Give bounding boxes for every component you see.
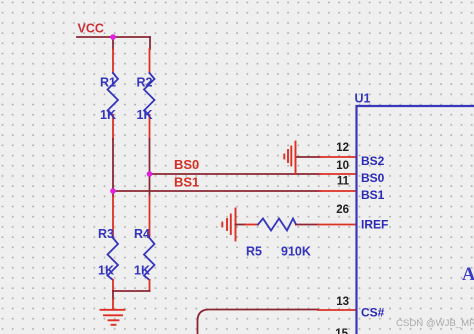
svg-text:910K: 910K [281, 245, 311, 259]
junction BS0 [147, 171, 153, 177]
wire ground to BS0 net [295, 171, 297, 174]
resistor R3 pin bottom [112, 280, 114, 291]
wire net BS1 [113, 190, 320, 192]
resistor R5 body [258, 219, 296, 231]
resistor R2 body [144, 73, 155, 115]
svg-text:A: A [462, 265, 474, 285]
resistor R1 pin bottom [112, 115, 114, 139]
svg-text:IREF: IREF [361, 218, 388, 232]
svg-text:R5: R5 [246, 245, 262, 259]
power rail VCC wire [77, 36, 150, 38]
svg-text:BS1: BS1 [174, 175, 199, 190]
pin 12 BS2 [320, 156, 356, 158]
pin 11 BS1 [320, 190, 356, 192]
resistor R4 pin bottom [149, 280, 151, 291]
wire R5 to pin [296, 224, 318, 226]
svg-text:R2: R2 [137, 76, 153, 90]
svg-text:CSDN @WJB_MR: CSDN @WJB_MR [396, 318, 474, 329]
svg-text:12: 12 [336, 142, 349, 154]
junction VCC rail [110, 34, 116, 40]
svg-text:1K: 1K [134, 264, 150, 278]
svg-text:R1: R1 [100, 76, 116, 90]
op IC U1 outline [357, 106, 474, 334]
svg-text:15: 15 [335, 328, 348, 334]
svg-text:BS0: BS0 [174, 157, 199, 172]
ground symbol at IREF [222, 209, 235, 241]
svg-text:1K: 1K [137, 108, 153, 122]
resistor R5 pin left [245, 224, 258, 226]
resistor R4 body [144, 238, 155, 280]
resistor R1 body [108, 73, 119, 115]
svg-text:11: 11 [337, 176, 350, 188]
wire column 2 middle [149, 139, 151, 196]
wire net BS0 [150, 173, 321, 175]
junction BS1 [110, 188, 116, 194]
svg-text:13: 13 [336, 296, 349, 308]
pin 13 CS# [318, 309, 356, 311]
svg-text:BS1: BS1 [361, 188, 385, 202]
resistor R3 pin top [112, 196, 114, 238]
resistor R2 pin top [149, 49, 151, 73]
ground symbol bottom [101, 310, 125, 325]
svg-text:CS#: CS# [361, 306, 385, 320]
wire vertical column 1 upper [112, 37, 114, 49]
wire bottom joining R3 R4 [113, 290, 150, 292]
svg-text:R3: R3 [98, 227, 114, 241]
svg-text:10: 10 [336, 160, 349, 172]
resistor R1 pin top [112, 49, 114, 73]
resistor R2 pin bottom [149, 115, 151, 139]
svg-text:U1: U1 [355, 92, 371, 106]
pin 26 IREF [318, 224, 356, 226]
svg-text:26: 26 [336, 204, 349, 216]
ground symbol at BS2 [284, 142, 295, 172]
wire pin12 to ground [296, 156, 321, 158]
svg-text:BS2: BS2 [361, 154, 385, 168]
ground stem bottom [112, 291, 114, 299]
svg-text:BS0: BS0 [361, 171, 385, 185]
svg-text:1K: 1K [100, 108, 116, 122]
wire ground to R5 [236, 224, 246, 226]
svg-text:R4: R4 [134, 227, 150, 241]
rounded box corner bottom left [198, 310, 319, 334]
resistor R4 pin top [149, 196, 151, 238]
pin 10 BS0 [320, 173, 356, 175]
svg-text:1K: 1K [98, 264, 114, 278]
svg-text:VCC: VCC [78, 22, 104, 36]
resistor R3 body [108, 238, 119, 280]
wire column 1 middle [112, 139, 114, 196]
wire corner rail to column 2 [149, 37, 151, 49]
